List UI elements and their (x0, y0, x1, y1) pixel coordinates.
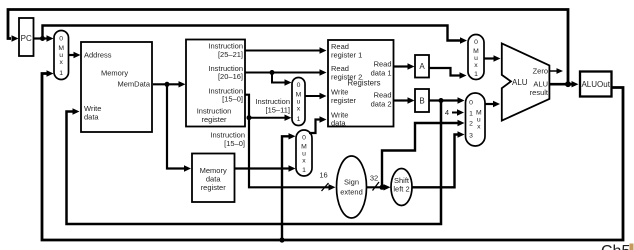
svg-text:B: B (419, 97, 424, 106)
svg-text:32: 32 (370, 174, 378, 183)
svg-text:Zero: Zero (533, 67, 548, 76)
svg-text:data 1: data 1 (371, 68, 392, 77)
svg-text:u: u (302, 151, 306, 158)
svg-text:M: M (296, 92, 302, 99)
svg-text:0: 0 (297, 82, 301, 89)
svg-text:data: data (331, 119, 346, 128)
wire: ALU result to ALUOut (550, 81, 579, 87)
wire: PC out to IorD mux input 0 (34, 35, 54, 41)
svg-text:M: M (476, 110, 482, 117)
mux ALUSrcB (466, 93, 486, 146)
svg-text:u: u (477, 117, 481, 124)
svg-text:0: 0 (474, 39, 478, 46)
wire: Instruction[15-11] to RegDst mux input 1 (249, 115, 292, 121)
svg-text:MemData: MemData (117, 79, 150, 88)
svg-text:[15–0]: [15–0] (222, 95, 243, 104)
register IR (instruction register) (186, 40, 245, 127)
svg-text:[20–16]: [20–16] (218, 72, 243, 81)
svg-text:u: u (474, 55, 478, 62)
junction: B out branch (439, 98, 444, 103)
wire: constant 4 to ALUSrcB mux input 1 (452, 109, 464, 115)
junction: sign extend out branch (380, 185, 385, 190)
svg-text:register: register (201, 115, 227, 124)
wire: sign extend to ALUSrcB mux input 2 (382, 120, 465, 188)
svg-text:register: register (201, 183, 227, 192)
wire: B to ALUSrcB mux input 0 (429, 97, 465, 103)
register PC (19, 18, 34, 56)
label: 16 and bit-width slash (319, 171, 328, 191)
svg-text:0: 0 (469, 100, 473, 107)
svg-text:register 1: register 1 (331, 50, 362, 59)
svg-text:ALUOut: ALUOut (581, 80, 610, 89)
mux RegDst (292, 78, 305, 126)
svg-text:x: x (474, 62, 478, 69)
mux IorD (54, 31, 69, 80)
svg-text:[25–21]: [25–21] (218, 50, 243, 59)
wire: MemtoReg mux to write data (309, 116, 327, 133)
svg-text:[15–11]: [15–11] (266, 105, 290, 114)
register ALUOut (580, 72, 612, 97)
op-amp-style ALU (502, 43, 550, 120)
wire: PC to ALUSrcA mux input 0 (43, 26, 468, 44)
svg-text:M: M (58, 45, 64, 52)
svg-text:Memory: Memory (101, 69, 128, 78)
wire: Instruction[20-16] to read register 2 (245, 69, 327, 75)
svg-text:PC: PC (21, 34, 32, 43)
svg-text:Read: Read (374, 91, 392, 100)
label: 32 and bit-width slash (370, 174, 379, 191)
register A (415, 55, 429, 78)
mux ALUSrcA (468, 35, 484, 80)
svg-text:[15–0]: [15–0] (224, 139, 245, 148)
svg-text:Sign: Sign (344, 178, 359, 187)
svg-text:1: 1 (297, 116, 301, 123)
memory box (81, 42, 152, 132)
svg-text:M: M (473, 48, 479, 55)
junction: MemData branch (165, 82, 170, 87)
svg-text:Read: Read (374, 60, 392, 69)
wire: ALUOut return (bottom loop to IorD mux input 1) (42, 70, 623, 240)
oval sign extend (337, 156, 367, 218)
svg-text:0: 0 (302, 135, 306, 142)
svg-text:1: 1 (59, 70, 63, 77)
svg-text:x: x (59, 59, 63, 66)
svg-text:register: register (331, 96, 357, 105)
wire: Zero out (550, 68, 564, 74)
wire: B register to memory write data (bottom) (67, 101, 442, 225)
wire: read data 1 to A (394, 63, 415, 69)
wire: MDR to MemtoReg mux input 1 (235, 165, 296, 171)
oval shift left 2 (391, 169, 412, 206)
svg-text:1: 1 (302, 167, 306, 174)
wire: ALU result feedback to PC (top) (8, 10, 568, 85)
svg-text:2: 2 (469, 121, 473, 128)
svg-text:0: 0 (59, 36, 63, 43)
svg-text:1: 1 (469, 111, 473, 118)
junction: PC out (40, 36, 45, 41)
register MDR (memory data register) (192, 154, 235, 203)
wire: ALUSrcB mux to ALU input 2 (485, 101, 500, 107)
label: Instruction[15-11] (255, 97, 290, 114)
svg-text:left 2: left 2 (393, 185, 409, 194)
register file box (328, 40, 394, 128)
text: slide footer Ch5 (601, 243, 634, 250)
svg-text:16: 16 (319, 171, 327, 180)
svg-text:ALU: ALU (512, 78, 528, 87)
svg-text:x: x (477, 124, 481, 131)
register B (415, 89, 429, 112)
svg-text:u: u (59, 52, 63, 59)
wire: IorD mux to memory address (69, 52, 81, 58)
wire: shift left 2 to ALUSrcB mux input 3 (412, 131, 465, 187)
mux MemtoReg (296, 130, 312, 176)
svg-text:x: x (302, 158, 306, 165)
svg-text:Address: Address (84, 51, 112, 60)
wire: RegDst mux to write register (305, 93, 327, 99)
junction: ALU result / PC feedback (565, 81, 571, 87)
wire: Instruction[25-21] to read register 1 (245, 47, 327, 53)
svg-text:1: 1 (474, 71, 478, 78)
svg-text:result: result (530, 88, 549, 97)
junction: Instruction[20-16] branch (270, 70, 275, 75)
wire: MemData to memory data register (167, 84, 191, 171)
svg-text:M: M (301, 144, 307, 151)
wire: read data 2 to B (394, 97, 415, 103)
wire: ALUSrcA mux to ALU input 1 (484, 55, 501, 61)
svg-text:3: 3 (469, 133, 473, 140)
wire: Instruction[15-0] to sign extend (245, 95, 336, 191)
svg-text:Registers: Registers (348, 78, 381, 87)
label: Instruction[15-0] (lower) (210, 131, 245, 148)
svg-text:4: 4 (445, 108, 449, 117)
wire: MemData to instruction register (153, 81, 186, 87)
svg-text:data: data (84, 113, 99, 122)
svg-text:extend: extend (340, 188, 363, 197)
svg-text:x: x (297, 106, 301, 113)
junction: Instruction[15-0] branch to RegDst mux (247, 115, 252, 120)
svg-text:data 2: data 2 (371, 99, 392, 108)
wire: Instruction[20-16] to RegDst mux input 0 (272, 73, 292, 86)
wire: ALUOut to MemtoReg mux input 0 (282, 133, 296, 240)
wire: sign extend out to shift left 2 (367, 184, 391, 190)
svg-text:A: A (419, 62, 425, 71)
junction: ALUOut return / MemtoReg branch (279, 237, 284, 242)
wire: A to ALUSrcA mux input 1 (429, 68, 467, 79)
svg-text:u: u (297, 99, 301, 106)
svg-text:Ch5: Ch5 (601, 243, 630, 250)
